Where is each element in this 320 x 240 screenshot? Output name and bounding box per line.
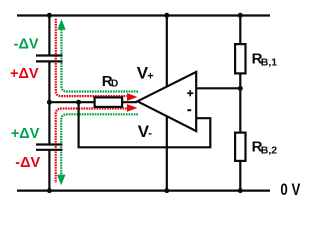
junction: bottom rail / mid vertical	[164, 188, 169, 193]
green current path arrow down (bottom)	[61, 114, 138, 174]
op-amp plus input marker	[187, 90, 193, 96]
svg-text:+ΔV: +ΔV	[11, 126, 40, 142]
wire: capacitor branch vertical	[48, 15, 50, 190]
op-amp minus input marker	[187, 109, 191, 111]
green current path arrow up (top, +ΔV discharge path)	[62, 29, 139, 92]
svg-text:+: +	[147, 70, 153, 82]
wire: mid vertical crossing line (supply to 0V)	[166, 15, 168, 190]
junction: top rail / divider branch	[238, 13, 243, 18]
junction: bottom rail / capacitor branch	[47, 188, 52, 193]
op-amp U1 (triangle, output at left apex)	[137, 72, 196, 131]
wire: right divider branch vertical	[239, 15, 241, 190]
svg-text:-ΔV: -ΔV	[15, 155, 40, 171]
svg-text:B,1: B,1	[261, 57, 278, 69]
svg-text:+ΔV: +ΔV	[10, 66, 39, 82]
wire: node to resistor RD to op-amp apex	[49, 101, 137, 103]
svg-text:-ΔV: -ΔV	[14, 37, 39, 53]
capacitor C1 (upper sensor plate pair)	[36, 56, 63, 62]
junction: top rail / capacitor branch	[47, 13, 52, 18]
junction: capacitor midpoint node	[47, 100, 52, 105]
junction: divider tap node	[238, 86, 243, 91]
capacitor C2 (lower sensor plate pair)	[36, 145, 63, 150]
junction: feedback node	[76, 100, 81, 105]
svg-text:D: D	[111, 79, 118, 90]
junction: top rail / mid vertical	[164, 13, 169, 18]
junction: bottom rail / divider branch	[238, 188, 243, 193]
resistor RD	[95, 97, 123, 107]
svg-text:-: -	[148, 128, 152, 140]
wire: non-inverting input to divider tap	[196, 87, 240, 89]
red current path (bottom rail to op-amp apex)	[56, 109, 127, 184]
svg-text:B,2: B,2	[261, 145, 278, 157]
bottom 0V rail	[17, 189, 270, 191]
svg-text:0 V: 0 V	[280, 181, 300, 199]
wire: feedback to inverting input	[79, 102, 211, 147]
top supply rail	[17, 14, 270, 16]
red current path (top rail to op-amp apex)	[56, 19, 127, 96]
resistor RB,2	[235, 133, 245, 161]
resistor RB,1	[235, 44, 245, 73]
